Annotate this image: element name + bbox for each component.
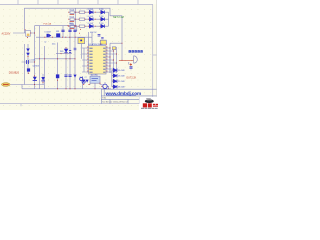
svg-text:7805: 7805 xyxy=(69,23,73,25)
svg-text:NET 2.1M: NET 2.1M xyxy=(113,16,124,19)
svg-text:www.dmbdj.com: www.dmbdj.com xyxy=(105,91,142,97)
svg-text:OUT2.2K: OUT2.2K xyxy=(126,77,136,80)
svg-text:U1 AT89C2051: U1 AT89C2051 xyxy=(89,43,104,46)
svg-text:C2: C2 xyxy=(44,42,46,44)
svg-text:D8 4148: D8 4148 xyxy=(118,87,124,89)
svg-text:C1 104: C1 104 xyxy=(30,59,36,61)
svg-text:D 4148: D 4148 xyxy=(88,9,93,11)
svg-text:D 4148: D 4148 xyxy=(88,23,93,25)
svg-text:R 220: R 220 xyxy=(99,9,103,11)
svg-text:FU1 2A: FU1 2A xyxy=(44,23,52,26)
svg-text:D1 4007: D1 4007 xyxy=(45,32,51,34)
svg-text:C6: C6 xyxy=(80,77,82,79)
svg-text:D7 4148: D7 4148 xyxy=(118,81,124,83)
svg-text:D6 4148: D6 4148 xyxy=(118,76,124,78)
svg-text:D5 4148: D5 4148 xyxy=(118,70,124,72)
svg-text:C7: C7 xyxy=(85,77,87,79)
svg-text:AC220V: AC220V xyxy=(2,33,11,36)
svg-text:DS18B20: DS18B20 xyxy=(9,72,20,75)
svg-text:VCC 5V: VCC 5V xyxy=(90,32,97,34)
svg-text:BR1: BR1 xyxy=(56,31,59,33)
svg-text:Q1 9013: Q1 9013 xyxy=(33,66,40,68)
svg-text:7805: 7805 xyxy=(60,51,64,53)
svg-text:R 10k: R 10k xyxy=(70,16,75,18)
svg-text:D 4148: D 4148 xyxy=(88,16,93,18)
svg-text:R 220: R 220 xyxy=(99,16,103,18)
svg-text:X1 12M: X1 12M xyxy=(91,74,97,76)
svg-text:Size B4 Date: 2005-6-18 She: Size B4 Date: 2005-6-18 Sheet of xyxy=(102,100,128,103)
svg-text:R 10k: R 10k xyxy=(70,9,75,11)
svg-text:R 220: R 220 xyxy=(99,23,103,25)
svg-text:100u: 100u xyxy=(52,44,56,46)
